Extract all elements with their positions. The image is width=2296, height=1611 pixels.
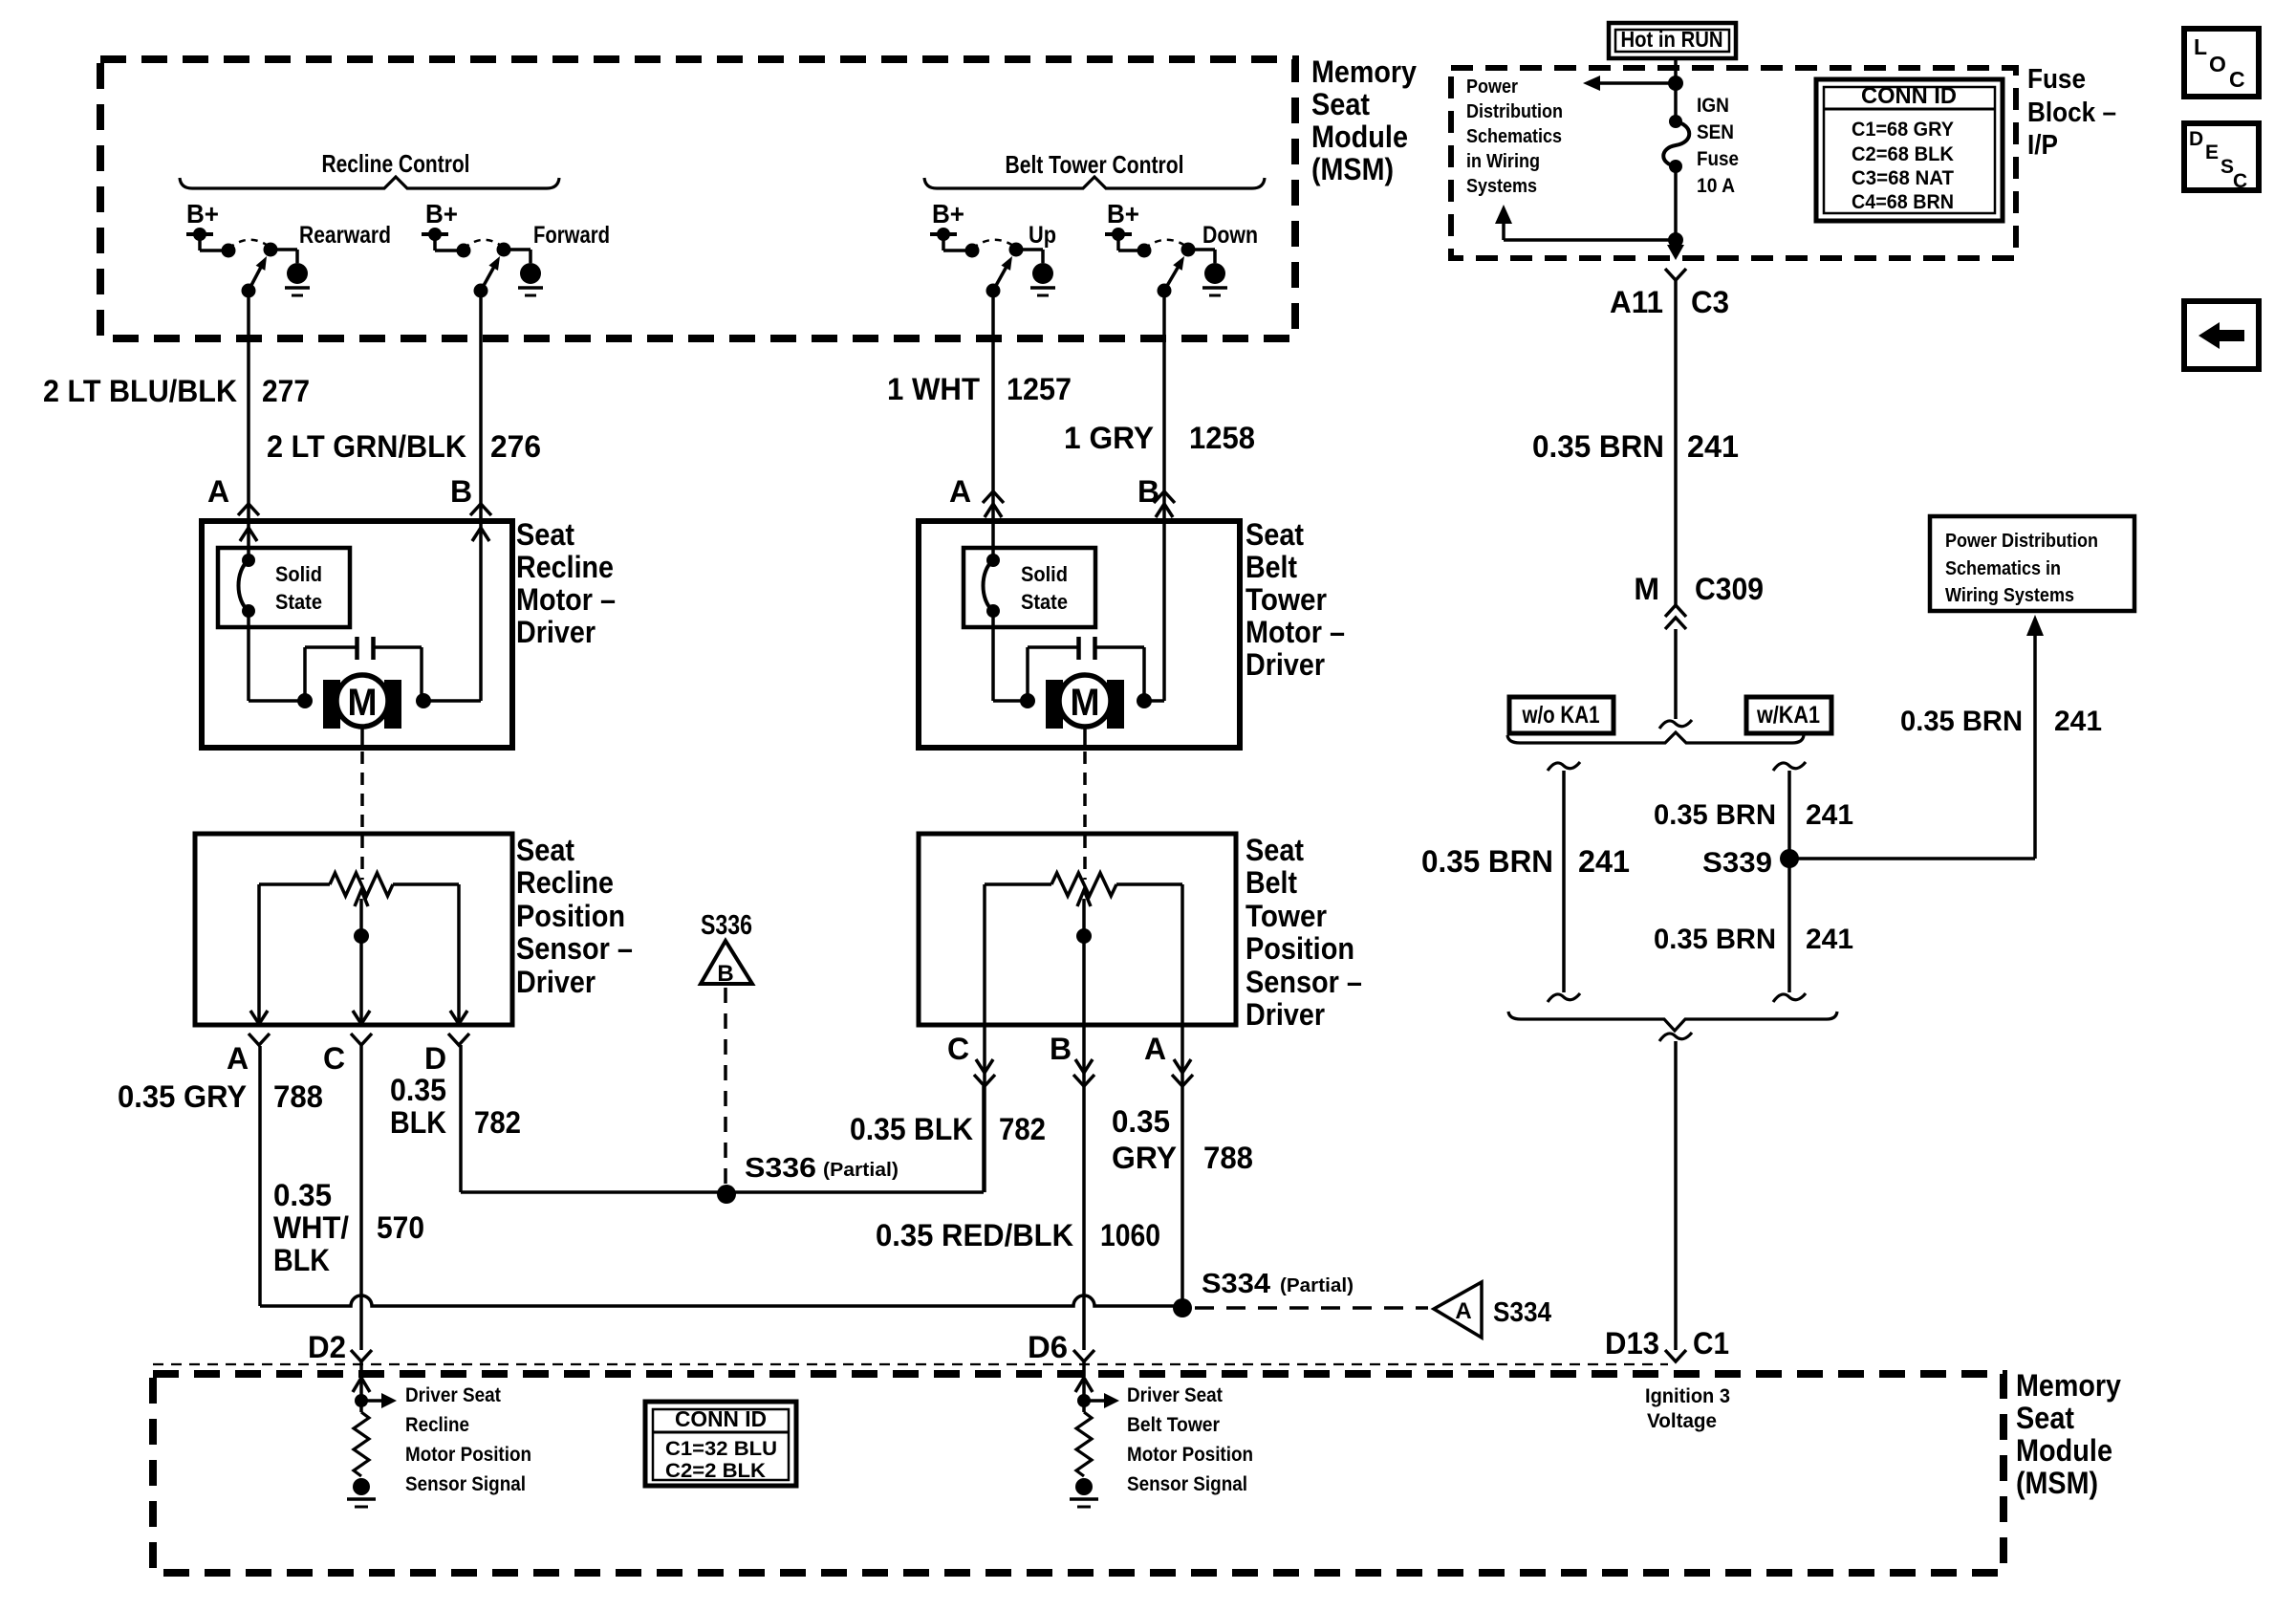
svg-text:S336: S336	[745, 1153, 816, 1184]
wire 241 merge to MSM pin D13	[1659, 1033, 1692, 1350]
label Recline Control	[322, 149, 470, 178]
wire 276 (2 LT GRN/BLK) switch Forward to recline motor pin B	[479, 291, 483, 701]
wire sensor leg C arrow (recline)	[353, 1011, 370, 1024]
svg-text:Recline: Recline	[405, 1414, 469, 1436]
svg-text:BLK: BLK	[273, 1243, 330, 1277]
pin B (belt sensor) connector	[1050, 1032, 1094, 1086]
wire 1258 (1 GRY) switch Down to belt motor pin B	[1162, 291, 1166, 701]
svg-text:Tower: Tower	[1245, 582, 1327, 617]
svg-text:CONN ID: CONN ID	[1861, 83, 1957, 109]
label 0.35 BRN 241 (upper)	[1532, 429, 1739, 464]
pin A (recline motor) connector	[207, 474, 259, 541]
svg-text:C1: C1	[1693, 1326, 1729, 1361]
svg-text:0.35 BRN: 0.35 BRN	[1532, 429, 1664, 464]
svg-text:241: 241	[1806, 799, 1853, 831]
svg-text:Rearward: Rearward	[299, 222, 391, 249]
pin B (belt motor) connector	[1137, 474, 1175, 517]
option box w/o KA1	[1509, 697, 1614, 733]
pin C (recline sensor) connector	[323, 1034, 372, 1076]
wire motor to pin B (recline)	[423, 699, 481, 703]
svg-text:Seat: Seat	[516, 517, 574, 552]
option box w/KA1	[1746, 697, 1831, 733]
svg-text:2 LT GRN/BLK: 2 LT GRN/BLK	[267, 429, 466, 464]
Memory Seat Module (MSM) top dashed enclosure	[100, 59, 1295, 338]
label Memory Seat Module (MSM) top	[1311, 54, 1417, 186]
B+ terminal (Up switch)	[930, 199, 972, 250]
svg-text:0.35 RED/BLK: 0.35 RED/BLK	[876, 1218, 1073, 1252]
label Belt Tower Control	[1006, 150, 1184, 179]
label 2 LT GRN/BLK 276	[267, 429, 541, 464]
potentiometer resistor (recline sensor)	[259, 873, 459, 896]
svg-text:C: C	[2233, 170, 2247, 192]
wire 241 w/KA1 branch	[1773, 762, 1806, 1002]
wire solid-state to motor (recline)	[249, 611, 313, 708]
svg-text:Motor Position: Motor Position	[405, 1444, 531, 1466]
svg-text:Driver: Driver	[1245, 647, 1325, 682]
label Rearward	[299, 222, 391, 249]
dashed wire splice S334 to off-page triangle	[1195, 1306, 1428, 1310]
svg-text:B: B	[450, 474, 472, 509]
svg-text:S339: S339	[1702, 847, 1772, 879]
label 0.35 BRN 241 (below S339)	[1654, 924, 1853, 955]
svg-text:1060: 1060	[1100, 1218, 1160, 1252]
svg-text:B+: B+	[425, 199, 458, 229]
svg-text:10 A: 10 A	[1697, 175, 1735, 197]
svg-text:0.35 BLK: 0.35 BLK	[850, 1112, 973, 1146]
ground (Forward switch)	[518, 263, 543, 295]
ground (Down switch)	[1202, 263, 1227, 295]
svg-text:Belt: Belt	[1245, 865, 1297, 900]
svg-text:782: 782	[474, 1105, 521, 1140]
svg-text:IGN: IGN	[1697, 95, 1729, 117]
svg-text:0.35 GRY: 0.35 GRY	[118, 1079, 247, 1114]
label 2 LT BLU/BLK 277	[43, 374, 310, 408]
pin A (recline sensor) connector	[227, 1034, 270, 1076]
legend box back-arrow	[2184, 301, 2259, 369]
legend box LOC	[2184, 29, 2259, 97]
label 0.35 BRN 241 (above S339)	[1654, 799, 1853, 831]
B+ terminal (Rearward switch)	[186, 199, 228, 250]
svg-text:I/P: I/P	[2027, 130, 2058, 161]
svg-text:Seat: Seat	[1245, 833, 1304, 867]
svg-text:241: 241	[1687, 429, 1739, 464]
svg-text:1 GRY: 1 GRY	[1064, 421, 1154, 455]
svg-text:C4=68 BRN: C4=68 BRN	[1852, 191, 1954, 213]
svg-text:276: 276	[490, 429, 541, 464]
switch Rearward (contacts and wiper)	[222, 240, 298, 298]
svg-text:Solid: Solid	[275, 562, 322, 586]
svg-text:Seat: Seat	[2016, 1401, 2074, 1435]
svg-text:Position: Position	[1245, 931, 1354, 966]
svg-text:(Partial): (Partial)	[823, 1160, 899, 1181]
ground (D2 sensor signal pulldown)	[347, 1478, 376, 1507]
B+ terminal (Forward switch)	[422, 199, 464, 250]
capacitor (recline motor)	[305, 637, 431, 708]
label 1 GRY 1258	[1064, 421, 1255, 455]
svg-text:B: B	[717, 961, 733, 987]
wire sensor leg A (belt)	[1180, 884, 1184, 1306]
svg-text:Systems: Systems	[1466, 176, 1537, 197]
label 0.35 RED/BLK 1060	[876, 1218, 1160, 1252]
svg-text:Memory: Memory	[1311, 54, 1417, 89]
brace harness split (top)	[1507, 732, 1804, 743]
svg-text:A: A	[949, 474, 971, 509]
svg-text:D6: D6	[1028, 1330, 1068, 1364]
wire 277 (2 LT BLU/BLK) switch Rearward to recline motor pin A	[247, 291, 250, 560]
wire sensor leg D (recline)	[450, 884, 467, 1025]
svg-text:Sensor Signal: Sensor Signal	[1127, 1473, 1247, 1495]
svg-text:A11: A11	[1610, 285, 1663, 319]
pin D13 / C1 connector	[1605, 1326, 1729, 1361]
svg-text:M: M	[348, 682, 378, 724]
capacitor (belt motor)	[1028, 637, 1152, 708]
wire sensor leg C (belt)	[983, 884, 986, 1192]
svg-text:B+: B+	[1107, 199, 1139, 229]
svg-text:BLK: BLK	[390, 1105, 446, 1140]
svg-text:277: 277	[262, 374, 310, 408]
svg-text:C: C	[947, 1032, 969, 1066]
off-page reference triangle S336-B	[701, 910, 752, 987]
svg-text:Motor –: Motor –	[516, 582, 616, 617]
svg-text:Belt Tower Control: Belt Tower Control	[1006, 150, 1184, 179]
fuse F1: IGN SEN Fuse 10 A	[1663, 115, 1689, 240]
svg-text:Position: Position	[516, 899, 625, 933]
svg-text:1258: 1258	[1189, 421, 1255, 455]
svg-text:B: B	[1050, 1032, 1072, 1066]
svg-text:241: 241	[2054, 706, 2102, 737]
potentiometer wiper arrow (recline sensor)	[354, 890, 369, 1025]
svg-text:Schematics in: Schematics in	[1945, 558, 2061, 579]
svg-text:(Partial): (Partial)	[1280, 1275, 1354, 1296]
brace harness merge (bottom)	[1508, 1012, 1837, 1031]
svg-text:State: State	[275, 590, 322, 614]
svg-text:Recline Control: Recline Control	[322, 149, 470, 178]
svg-text:C1=32 BLU: C1=32 BLU	[665, 1438, 777, 1460]
wire 241 (0.35 BRN) fuse to C309	[1674, 280, 1678, 605]
svg-text:Solid: Solid	[1021, 562, 1068, 586]
label 0.35 GRY 788	[118, 1079, 323, 1114]
svg-text:Recline: Recline	[516, 865, 614, 900]
wire motor to pin B (belt)	[1144, 699, 1164, 703]
solid state switch (belt motor)	[964, 548, 1095, 627]
wire 1257 (1 WHT) switch Up to belt motor pin A	[991, 291, 995, 560]
ground (Up switch)	[1030, 263, 1055, 295]
wire 241 w/o KA1 branch	[1548, 762, 1580, 1002]
label Forward	[533, 222, 610, 249]
label 0.35 BRN 241 (w/o KA1 branch)	[1421, 844, 1630, 879]
wire solid-state to motor (belt)	[993, 611, 1035, 708]
svg-text:E: E	[2205, 142, 2219, 163]
svg-text:788: 788	[273, 1079, 323, 1114]
label Power Distribution Schematics in Wiring Systems (fuse block)	[1466, 76, 1563, 197]
svg-text:M: M	[1071, 682, 1100, 724]
label Seat Belt Tower Position Sensor - Driver	[1245, 833, 1362, 1032]
label 0.35 BLK 782 (belt C)	[850, 1112, 1046, 1146]
brace Recline Control	[180, 177, 559, 188]
pin D2 connector	[308, 1330, 372, 1364]
solid state switch (recline motor)	[218, 548, 350, 627]
svg-text:C3: C3	[1691, 285, 1729, 319]
wire 241 C309 to harness split	[1659, 629, 1692, 729]
label 0.35 BRN 241 (S339 feed)	[1900, 706, 2102, 737]
svg-text:A: A	[207, 474, 229, 509]
switch Up (contacts and wiper)	[965, 240, 1044, 298]
legend box DESC	[2184, 123, 2259, 192]
pin A (belt motor) connector	[949, 474, 1004, 517]
label Driver Seat Belt Tower Motor Position Sensor Signal	[1127, 1384, 1253, 1495]
motor M (recline)	[323, 675, 401, 729]
svg-text:788: 788	[1203, 1141, 1253, 1175]
Memory Seat Module (MSM) bottom dashed enclosure	[153, 1374, 2004, 1573]
svg-text:Hot in RUN: Hot in RUN	[1621, 27, 1723, 52]
label Seat Belt Tower Motor - Driver	[1245, 517, 1345, 682]
svg-text:SEN: SEN	[1697, 121, 1734, 143]
wire 782 recline-D to belt-C via splice S336	[461, 1045, 984, 1192]
svg-text:Recline: Recline	[516, 550, 614, 584]
label Memory Seat Module (MSM) bottom	[2016, 1368, 2121, 1500]
svg-text:Belt: Belt	[1245, 550, 1297, 584]
svg-text:1257: 1257	[1007, 372, 1072, 406]
svg-text:0.35 BRN: 0.35 BRN	[1654, 924, 1776, 955]
pin D (recline sensor) connector	[424, 1034, 469, 1076]
wire 241 S339 to power distribution arrow	[1789, 615, 2044, 859]
svg-text:B: B	[1137, 474, 1159, 509]
svg-text:O: O	[2209, 52, 2226, 76]
pin D6 connector	[1028, 1330, 1094, 1364]
wire Hot in RUN to fuse	[1668, 58, 1683, 121]
svg-text:CONN ID: CONN ID	[675, 1406, 767, 1431]
svg-text:B+: B+	[932, 199, 964, 229]
svg-text:Driver: Driver	[516, 615, 596, 649]
svg-text:Seat: Seat	[1245, 517, 1304, 552]
svg-text:Driver: Driver	[1245, 997, 1325, 1032]
fuse output down-arrow	[1667, 240, 1684, 260]
potentiometer resistor (belt sensor)	[985, 873, 1182, 896]
svg-text:(MSM): (MSM)	[1311, 152, 1394, 186]
svg-text:1 WHT: 1 WHT	[887, 372, 980, 406]
pin A (belt sensor) connector	[1144, 1032, 1193, 1086]
switch Down (contacts and wiper)	[1137, 240, 1216, 298]
svg-text:B+: B+	[186, 199, 219, 229]
svg-text:241: 241	[1806, 924, 1853, 955]
sensor box BP1: Seat Belt Tower Position Sensor - Driver	[919, 834, 1236, 1025]
svg-text:Seat: Seat	[1311, 87, 1370, 121]
label Ignition 3 Voltage	[1645, 1385, 1730, 1432]
svg-text:w/o KA1: w/o KA1	[1522, 702, 1600, 729]
label 1 WHT 1257	[887, 372, 1072, 406]
svg-text:(MSM): (MSM)	[2016, 1466, 2098, 1500]
svg-text:C2=68 BLK: C2=68 BLK	[1852, 143, 1954, 165]
svg-text:0.35: 0.35	[1112, 1104, 1170, 1139]
svg-text:782: 782	[999, 1112, 1046, 1146]
svg-text:0.35 BRN: 0.35 BRN	[1654, 799, 1776, 831]
CONN ID table (fuse block)	[1816, 79, 2003, 221]
svg-text:S: S	[2220, 156, 2234, 178]
sensor box RP1: Seat Recline Position Sensor - Driver	[195, 834, 512, 1025]
label Fuse Block - I/P	[2027, 64, 2116, 161]
svg-text:Driver: Driver	[516, 965, 596, 999]
wire D13 into MSM (terminates at module edge)	[0, 0, 1, 1]
svg-text:GRY: GRY	[1112, 1141, 1177, 1175]
svg-text:0.35: 0.35	[273, 1178, 332, 1212]
svg-text:C1=68 GRY: C1=68 GRY	[1852, 119, 1954, 141]
wire 788 recline-A to splice S334 (with crossovers)	[260, 1046, 1182, 1306]
svg-text:in Wiring: in Wiring	[1466, 151, 1540, 172]
svg-text:0.35: 0.35	[390, 1073, 446, 1107]
svg-text:A: A	[1144, 1032, 1166, 1066]
label 0.35 WHT/BLK 570	[273, 1178, 424, 1277]
svg-text:Ignition 3: Ignition 3	[1645, 1385, 1730, 1407]
internal resistor and signal arrow at D6	[1075, 1378, 1119, 1476]
svg-text:WHT/: WHT/	[273, 1210, 349, 1245]
B+ terminal (Down switch)	[1105, 199, 1144, 250]
svg-text:Fuse: Fuse	[1697, 148, 1739, 170]
flag Hot in RUN	[1609, 23, 1736, 58]
svg-text:0.35 BRN: 0.35 BRN	[1421, 844, 1553, 879]
svg-text:Fuse: Fuse	[2027, 64, 2086, 95]
svg-text:Sensor –: Sensor –	[1245, 965, 1362, 999]
pin M / C309 in-line connector	[1634, 572, 1764, 629]
wire motor wiper stem (recline)	[360, 727, 364, 748]
svg-text:Power Distribution: Power Distribution	[1945, 531, 2098, 552]
svg-text:D: D	[424, 1041, 446, 1076]
switch Forward (contacts and wiper)	[457, 240, 531, 298]
dashed wire S336 triangle to splice	[724, 988, 727, 1186]
svg-text:Block –: Block –	[2027, 98, 2116, 128]
mechanical link motor-to-sensor (recline, dashed)	[360, 751, 364, 880]
svg-text:C2=2 BLK: C2=2 BLK	[665, 1460, 766, 1482]
splice node S336 (Partial)	[717, 1153, 899, 1204]
svg-text:Belt Tower: Belt Tower	[1127, 1414, 1220, 1436]
label Up	[1029, 222, 1056, 249]
ground (Rearward switch)	[285, 263, 310, 295]
svg-text:Sensor –: Sensor –	[516, 931, 633, 966]
svg-text:570: 570	[377, 1210, 424, 1245]
svg-text:A: A	[227, 1041, 249, 1076]
off-page reference triangle S334-A	[1434, 1282, 1551, 1338]
potentiometer wiper arrow (belt sensor)	[1076, 890, 1092, 1350]
label Driver Seat Recline Motor Position Sensor Signal	[405, 1384, 531, 1495]
svg-text:Distribution: Distribution	[1466, 101, 1563, 122]
label 0.35 GRY 788 (belt A)	[1112, 1104, 1253, 1175]
svg-text:w/KA1: w/KA1	[1756, 702, 1820, 729]
label 0.35 BLK 782 (recline D)	[390, 1073, 521, 1140]
CONN ID table (MSM connectors)	[645, 1402, 796, 1486]
svg-text:A: A	[1455, 1298, 1471, 1324]
reference box Power Distribution Schematics in Wiring Systems	[1930, 516, 2134, 611]
label Seat Recline Position Sensor - Driver	[516, 833, 633, 999]
label Seat Recline Motor - Driver	[516, 517, 616, 649]
motor box U2: Seat Belt Tower Motor - Driver	[919, 521, 1240, 748]
svg-text:Driver Seat: Driver Seat	[405, 1384, 501, 1406]
svg-text:L: L	[2194, 34, 2207, 59]
svg-text:Power: Power	[1466, 76, 1518, 98]
svg-text:Down: Down	[1202, 222, 1258, 249]
svg-text:Sensor Signal: Sensor Signal	[405, 1473, 526, 1495]
svg-text:Memory: Memory	[2016, 1368, 2121, 1403]
pin C (belt sensor) connector	[947, 1032, 995, 1086]
svg-text:Forward: Forward	[533, 222, 610, 249]
svg-text:D2: D2	[308, 1330, 346, 1364]
svg-text:State: State	[1021, 590, 1068, 614]
svg-text:S336: S336	[701, 910, 752, 941]
wire 1060 belt-B to MSM pin D6	[1082, 1361, 1086, 1377]
svg-text:Schematics: Schematics	[1466, 126, 1562, 147]
svg-text:S334: S334	[1493, 1297, 1551, 1328]
svg-text:2 LT BLU/BLK: 2 LT BLU/BLK	[43, 374, 237, 408]
wire sensor leg A (recline)	[250, 884, 268, 1025]
svg-text:C3=68 NAT: C3=68 NAT	[1852, 167, 1954, 189]
svg-text:Module: Module	[1311, 120, 1408, 154]
Fuse Block - I/P dashed enclosure	[1451, 68, 2016, 258]
svg-text:Wiring Systems: Wiring Systems	[1945, 585, 2074, 606]
svg-text:241: 241	[1578, 844, 1630, 879]
pin B (recline motor) connector	[450, 474, 491, 541]
wire arrow to power distribution (up)	[1495, 205, 1683, 248]
svg-text:C: C	[323, 1041, 345, 1076]
wire motor wiper stem (belt)	[1083, 727, 1087, 748]
svg-text:Tower: Tower	[1245, 899, 1327, 933]
svg-text:Driver Seat: Driver Seat	[1127, 1384, 1223, 1406]
pin A11 / C3 connector	[1610, 269, 1729, 319]
svg-text:Module: Module	[2016, 1433, 2112, 1468]
internal resistor and signal arrow at D2	[353, 1378, 397, 1476]
motor box U1: Seat Recline Motor - Driver	[202, 521, 512, 748]
label Down	[1202, 222, 1258, 249]
connector face parting line C2 (fine dashed)	[153, 1363, 1668, 1365]
svg-text:Seat: Seat	[516, 833, 574, 867]
svg-text:D: D	[2189, 128, 2203, 150]
svg-text:Motor Position: Motor Position	[1127, 1444, 1253, 1466]
svg-text:C: C	[2229, 67, 2245, 92]
wire 570 recline-C to MSM pin D2	[359, 1045, 363, 1377]
mechanical link motor-to-sensor (belt, dashed)	[1083, 751, 1087, 880]
svg-text:D13: D13	[1605, 1326, 1659, 1361]
svg-text:0.35 BRN: 0.35 BRN	[1900, 706, 2023, 737]
wire arrow to power distribution (left)	[1583, 76, 1676, 91]
svg-text:Voltage: Voltage	[1647, 1410, 1717, 1432]
svg-text:S334: S334	[1202, 1269, 1270, 1299]
ground (D6 sensor signal pulldown)	[1070, 1478, 1098, 1507]
svg-text:Up: Up	[1029, 222, 1056, 249]
splice node S334 (Partial)	[1173, 1269, 1354, 1317]
splice node S339	[1702, 847, 1799, 879]
svg-text:Motor –: Motor –	[1245, 615, 1345, 649]
svg-text:C309: C309	[1695, 572, 1764, 606]
brace Belt Tower Control	[924, 177, 1265, 188]
label IGN SEN Fuse 10 A	[1697, 95, 1739, 197]
svg-text:M: M	[1634, 572, 1659, 606]
motor M (belt)	[1046, 675, 1124, 729]
